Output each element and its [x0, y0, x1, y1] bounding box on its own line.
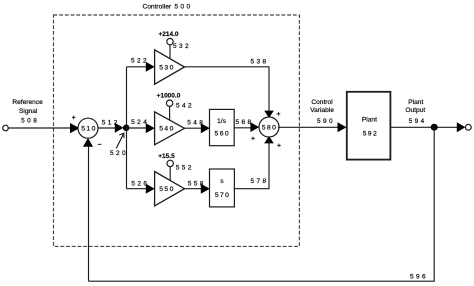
svg-text:1/s: 1/s — [217, 118, 226, 125]
svg-text:+: + — [251, 136, 255, 143]
svg-text:Output: Output — [405, 107, 425, 114]
svg-text:532: 532 — [173, 43, 191, 50]
svg-text:–: – — [98, 141, 102, 148]
svg-text:530: 530 — [159, 65, 175, 72]
svg-text:580: 580 — [262, 125, 278, 132]
svg-text:590: 590 — [317, 118, 335, 125]
svg-text:596: 596 — [410, 273, 428, 280]
svg-text:552: 552 — [176, 165, 194, 172]
svg-text:542: 542 — [176, 103, 194, 110]
svg-text:592: 592 — [363, 131, 379, 138]
svg-text:500: 500 — [175, 4, 193, 11]
svg-text:+: + — [277, 111, 281, 118]
svg-text:+: + — [72, 114, 76, 121]
svg-text:Control: Control — [311, 99, 333, 106]
svg-text:Variable: Variable — [310, 107, 334, 114]
svg-text:538: 538 — [250, 59, 268, 66]
svg-text:+214.0: +214.0 — [158, 31, 178, 38]
svg-text:+1000.0: +1000.0 — [157, 93, 181, 100]
svg-text:+15.5: +15.5 — [158, 153, 175, 160]
svg-text:Plant: Plant — [408, 99, 423, 106]
svg-text:594: 594 — [409, 118, 427, 125]
svg-text:Signal: Signal — [19, 108, 38, 115]
svg-text:560: 560 — [215, 130, 231, 137]
svg-text:570: 570 — [215, 192, 231, 199]
svg-text:550: 550 — [159, 186, 175, 193]
svg-text:508: 508 — [21, 118, 39, 125]
svg-text:+: + — [277, 143, 281, 150]
svg-text:Reference: Reference — [12, 99, 43, 106]
svg-text:510: 510 — [81, 126, 97, 133]
svg-text:Controller: Controller — [143, 4, 172, 11]
svg-text:520: 520 — [110, 150, 128, 157]
svg-text:540: 540 — [159, 126, 175, 133]
svg-text:Plant: Plant — [362, 116, 377, 123]
svg-text:578: 578 — [250, 178, 268, 185]
